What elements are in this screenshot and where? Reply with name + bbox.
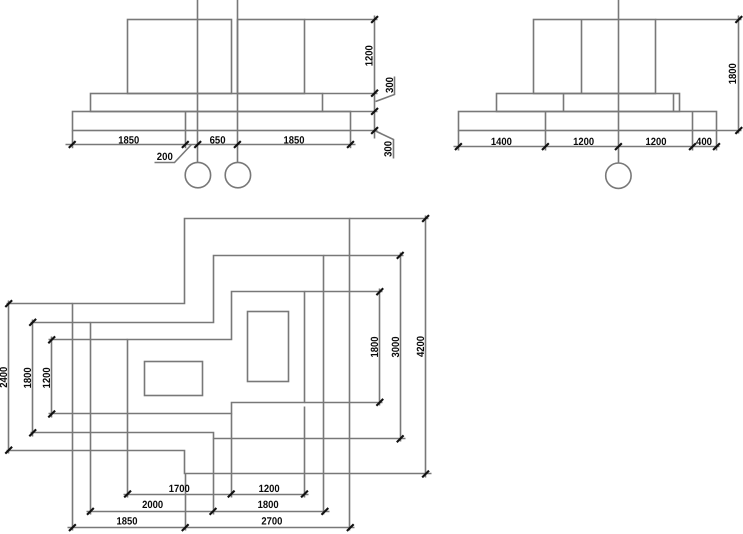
tick 2000/1800 mid (plan bottom): [210, 508, 217, 515]
tick right dim 111 (view1): [371, 108, 378, 115]
middle tier joint line (view2): [563, 94, 565, 112]
svg-text:1800: 1800: [258, 499, 279, 511]
svg-text:1700: 1700: [169, 483, 190, 495]
bottom tier joint left (view2): [545, 112, 547, 131]
extension left y414 (plan): [49, 413, 128, 415]
extension line joint down (view1): [185, 131, 187, 149]
svg-text:1200: 1200: [259, 483, 280, 495]
extension left y433 (plan): [31, 432, 91, 434]
inner step outline (plan): [128, 292, 305, 414]
tick 1800 top (plan left): [29, 319, 36, 326]
extension right y439 (plan): [324, 438, 406, 440]
leader for 200 (view1): [155, 145, 192, 163]
svg-text:2400: 2400: [0, 367, 10, 388]
tick 1800 bottom (view2): [735, 127, 742, 134]
extension down x304 (plan): [304, 407, 306, 498]
axis centerline A (view1): [197, 0, 199, 163]
extension left y450 (plan): [7, 450, 73, 452]
tick at 618.4 (view2 dim): [615, 143, 622, 150]
svg-text:3000: 3000: [390, 336, 402, 357]
extension right y402 (plan): [305, 402, 383, 404]
tick 2700 right (plan bottom): [347, 524, 354, 531]
extension left y322 (plan): [31, 322, 91, 324]
tick 1700/1200 mid (plan bottom): [228, 491, 235, 498]
right vertical dimension line (view1): [374, 16, 376, 139]
tick at 458.4 (view2 dim): [455, 143, 462, 150]
extension right y255 (plan): [324, 255, 404, 257]
svg-text:1850: 1850: [118, 135, 139, 147]
extension down x90 (plan): [90, 433, 92, 515]
tick 1700 left (plan bottom): [124, 491, 131, 498]
tick 2400 bottom (plan left): [5, 447, 12, 454]
column footprint left (plan): [145, 362, 203, 396]
tick 4200 bottom (plan right): [422, 471, 429, 478]
dimension line 1700/1200 (plan bottom): [124, 494, 309, 496]
extension line tier1 top right (view1): [323, 93, 378, 95]
extension down x213 (plan): [213, 439, 215, 515]
svg-text:300: 300: [382, 141, 394, 157]
tick 2400 top (plan left): [5, 300, 12, 307]
column block (view2): [534, 20, 656, 94]
extension left footing edge down (view2): [458, 131, 460, 151]
extension line top right (view1): [305, 19, 378, 21]
dimension line 4200 (plan right): [425, 216, 427, 478]
svg-text:1800: 1800: [727, 63, 739, 84]
leader for 300 upper (view1): [376, 77, 395, 102]
extension right footing edge down (view2): [716, 131, 718, 151]
svg-text:650: 650: [210, 135, 226, 147]
svg-text:1200: 1200: [364, 45, 376, 66]
svg-text:300: 300: [384, 77, 396, 93]
extension down x350 (plan): [349, 474, 351, 531]
extension joint left down (view2): [545, 131, 547, 151]
tick right dim top (view1): [371, 16, 378, 23]
axis bubble B (view1): [225, 162, 250, 187]
extension right y292 (plan): [305, 291, 383, 293]
axis bubble (view2): [606, 163, 631, 188]
tick at 197.7 (view1 dim): [194, 141, 201, 148]
tick at 72.2 (view1 dim): [69, 141, 76, 148]
bottom tier (view2): [459, 112, 717, 131]
tick 1850/2700 mid (plan bottom): [182, 524, 189, 531]
tick 4200 top (plan right): [422, 215, 429, 222]
svg-text:1200: 1200: [573, 136, 594, 148]
tick 3000 bottom (plan right): [397, 435, 404, 442]
svg-text:2700: 2700: [261, 515, 282, 527]
tick 1200 top (plan left): [48, 336, 55, 343]
svg-text:1200: 1200: [41, 367, 53, 388]
dimension line 1850/2700 (plan bottom): [68, 527, 355, 529]
extension line tier1 bottom right (view1): [323, 111, 378, 113]
extension line tier2 bottom right (view1): [351, 130, 378, 132]
extension line bottom right (view2): [717, 130, 742, 132]
tick at 237.4 (view1 dim): [234, 141, 241, 148]
axis centerline (view2): [618, 0, 620, 164]
bottom tier (view1): [73, 112, 351, 131]
middle step outline (plan): [91, 256, 324, 439]
extension left y340 (plan): [49, 339, 128, 341]
extension line left footing edge down (view1): [72, 131, 74, 149]
column footprint right (plan): [248, 312, 289, 382]
extension line top right (view2): [656, 19, 742, 21]
joint line in bottom tier (view1): [185, 112, 187, 131]
svg-text:400: 400: [696, 136, 712, 148]
axis bubble A (view1): [185, 162, 210, 187]
extension down x72 (plan): [72, 451, 74, 531]
dimension line 1800 (plan right): [379, 289, 381, 406]
svg-text:1400: 1400: [491, 136, 512, 148]
tick 1850 left (plan bottom): [69, 524, 76, 531]
tick 1800 top (view2): [735, 16, 742, 23]
tick right dim 130 (view1): [371, 127, 378, 134]
tick at 185.3 (view1 dim): [182, 141, 189, 148]
middle tier (view1): [91, 94, 323, 112]
extension joint right down (view2): [692, 131, 694, 151]
tick 1800 bottom (plan left): [29, 429, 36, 436]
dimension line 1200 (plan left): [51, 337, 53, 418]
tick 2000 left (plan bottom): [87, 508, 94, 515]
dimension line 1800 (plan left): [32, 320, 34, 437]
extension line right footing edge down (view1): [350, 131, 352, 149]
right vertical dimension line 1800 (view2): [738, 16, 740, 134]
extension down x323 (plan): [323, 439, 325, 515]
middle tier inner edge line (view2): [673, 94, 675, 112]
tick right dim 93 (view1): [371, 90, 378, 97]
middle tier (view2): [497, 94, 680, 112]
tick at 350.5 (view1 dim): [347, 141, 354, 148]
horizontal dimension line (view1): [66, 144, 356, 146]
extension down x231 (plan): [231, 414, 233, 498]
horizontal dimension line (view2): [454, 146, 720, 148]
outer footing outline (plan): [73, 219, 350, 474]
column joint line (view2): [581, 20, 583, 94]
svg-text:1850: 1850: [117, 515, 138, 527]
extension right y218 (plan): [350, 218, 429, 220]
tick at 545.4 (view2 dim): [542, 143, 549, 150]
extension right y474 (plan): [350, 473, 432, 475]
svg-text:2000: 2000: [142, 499, 163, 511]
extension left y303 (plan): [7, 303, 73, 305]
tick 1800 right (plan bottom): [322, 508, 329, 515]
leader for 300 lower (view1): [375, 131, 394, 159]
tick 1200 right (plan bottom): [301, 491, 308, 498]
svg-text:1850: 1850: [284, 135, 305, 147]
extension down x185 (plan): [185, 474, 187, 531]
dimension line 2400 (plan left): [8, 301, 10, 454]
column 1 (view1): [128, 20, 232, 94]
dimension line 3000 (plan right): [400, 253, 402, 442]
tick 1800 bottom (plan right): [376, 399, 383, 406]
svg-text:1200: 1200: [646, 136, 667, 148]
extension down x127 (plan): [127, 414, 129, 498]
svg-text:1800: 1800: [369, 336, 381, 357]
axis centerline B (view1): [237, 0, 239, 163]
bottom tier joint right (view2): [692, 112, 694, 131]
tick 1800 top (plan right): [376, 288, 383, 295]
tick 1200 bottom (plan left): [48, 411, 55, 418]
column 2 (view1): [238, 20, 305, 94]
svg-text:4200: 4200: [415, 336, 427, 357]
svg-text:200: 200: [157, 151, 173, 163]
dimension line 2000/1800 (plan bottom): [87, 511, 330, 513]
svg-text:1800: 1800: [22, 367, 34, 388]
tick at 715.8 (view2 dim): [713, 143, 720, 150]
tick at 692.0 (view2 dim): [689, 143, 696, 150]
tick 3000 top (plan right): [397, 252, 404, 259]
